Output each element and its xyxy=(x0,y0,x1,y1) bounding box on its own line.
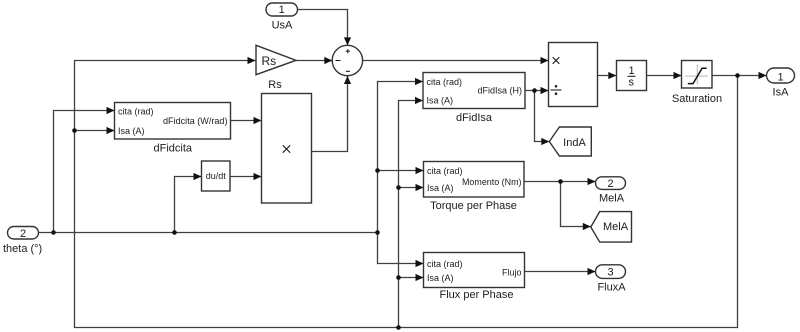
output port 1 IsA xyxy=(767,68,795,99)
block dFidIsa xyxy=(423,73,525,124)
wire gain to sum xyxy=(296,60,333,62)
wire Isa to Torque xyxy=(399,187,424,189)
output port 3 FluxA xyxy=(596,265,627,294)
wire theta to dFidcita cita xyxy=(54,111,115,233)
wire dFidIsa to divide xyxy=(525,90,549,92)
svg-text:dFidcita: dFidcita xyxy=(154,143,193,155)
wire Isa vertical to dFidIsa xyxy=(399,101,424,328)
svg-text:1: 1 xyxy=(628,65,634,77)
svg-text:UsA: UsA xyxy=(272,20,293,32)
wire sum to divide xyxy=(363,60,549,62)
wire saturation to IsA port xyxy=(712,75,767,77)
svg-text:Flujo: Flujo xyxy=(502,267,522,277)
svg-text:theta (°): theta (°) xyxy=(3,243,42,255)
svg-text:Rs: Rs xyxy=(268,79,282,91)
svg-text:dFidIsa: dFidIsa xyxy=(456,112,493,124)
svg-text:Isa (A): Isa (A) xyxy=(427,273,454,283)
svg-text:MelA: MelA xyxy=(599,192,625,204)
block Torque per Phase xyxy=(424,162,525,212)
sum block xyxy=(332,45,362,75)
svg-text:MelA: MelA xyxy=(603,221,629,233)
wire cita to Torque xyxy=(378,170,424,172)
svg-text:Torque per Phase: Torque per Phase xyxy=(430,200,517,212)
product block xyxy=(262,94,312,204)
divide block xyxy=(549,43,598,107)
wire Isa to dFidcita Isa xyxy=(75,130,115,132)
svg-text:cita (rad): cita (rad) xyxy=(427,166,463,176)
svg-text:du/dt: du/dt xyxy=(206,171,227,181)
svg-text:cita (rad): cita (rad) xyxy=(118,106,154,116)
svg-text:s: s xyxy=(628,77,634,89)
svg-text:Saturation: Saturation xyxy=(672,93,722,105)
wire Isa to Flux xyxy=(399,277,424,279)
svg-text:Momento (Nm): Momento (Nm) xyxy=(462,177,522,187)
input port 1 UsA xyxy=(266,3,298,32)
wire to MelA goto xyxy=(561,182,591,227)
svg-text:Flux per Phase: Flux per Phase xyxy=(440,289,514,301)
block du/dt xyxy=(202,161,231,191)
wire dFidcita to product xyxy=(231,120,262,122)
svg-text:dFidcita (W/rad): dFidcita (W/rad) xyxy=(163,116,228,126)
svg-text:1: 1 xyxy=(777,71,783,83)
svg-text:IsA: IsA xyxy=(773,87,790,99)
svg-text:Isa (A): Isa (A) xyxy=(427,95,454,105)
block dFidcita xyxy=(115,103,231,155)
svg-text:Isa (A): Isa (A) xyxy=(118,126,145,136)
svg-text:dFidIsa (H): dFidIsa (H) xyxy=(477,86,522,96)
integrator 1/s xyxy=(617,61,647,91)
wire du/dt to product xyxy=(230,176,262,178)
svg-text:1: 1 xyxy=(279,4,285,16)
svg-text:FluxA: FluxA xyxy=(597,282,626,294)
output port 2 MelA xyxy=(596,177,626,205)
wire feedback IsA to gain Rs xyxy=(75,61,738,328)
wire product to sum xyxy=(312,76,348,152)
svg-text:cita (rad): cita (rad) xyxy=(427,77,463,87)
wire integrator to saturation xyxy=(647,75,682,77)
svg-text:IndA: IndA xyxy=(563,137,586,149)
wire cita to Flux xyxy=(378,233,424,264)
input port 2 theta xyxy=(3,227,42,256)
block Flux per Phase xyxy=(424,253,525,301)
gain Rs xyxy=(256,45,296,91)
svg-text:3: 3 xyxy=(607,267,613,279)
wire flux to FluxA port xyxy=(525,271,596,273)
saturation block xyxy=(672,61,722,105)
svg-text:Rs: Rs xyxy=(262,54,277,68)
svg-text:Isa (A): Isa (A) xyxy=(427,183,454,193)
svg-text:cita (rad): cita (rad) xyxy=(427,259,463,269)
wire cita vertical to dFidIsa xyxy=(378,82,424,233)
wire divide to integrator xyxy=(598,75,617,77)
wire dFidIsa to IndA goto xyxy=(535,91,550,142)
wire theta to du/dt xyxy=(175,177,202,233)
goto IndA xyxy=(549,127,591,156)
svg-text:2: 2 xyxy=(607,178,613,190)
goto MelA xyxy=(591,212,632,243)
svg-text:2: 2 xyxy=(20,228,26,240)
wire torque to MelA port xyxy=(524,181,596,183)
wire UsA to sum xyxy=(298,10,348,46)
wire theta main line xyxy=(39,232,378,234)
